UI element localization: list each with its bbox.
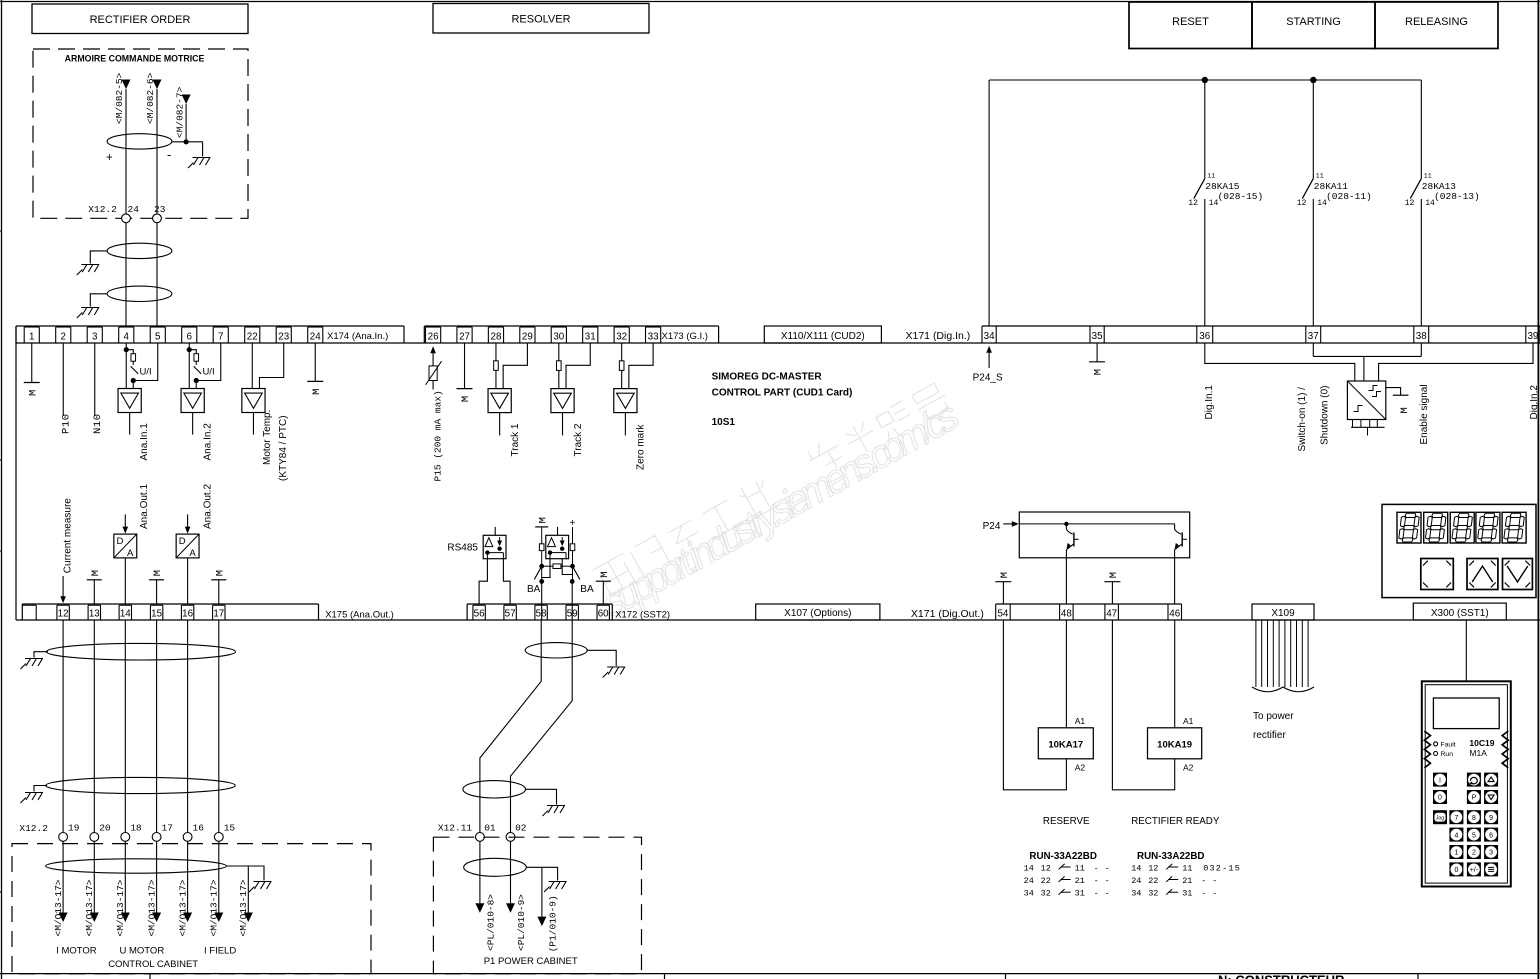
svg-text:Ana.In.1: Ana.In.1 [139, 423, 150, 461]
svg-text:30: 30 [553, 331, 564, 342]
connector X109 [1252, 604, 1314, 620]
shield ellipse E7 [463, 781, 557, 805]
svg-text:2: 2 [1472, 850, 1476, 857]
svg-text:Zero mark: Zero mark [636, 423, 647, 470]
cable dest PL/010-8 [475, 841, 496, 951]
shield ellipse E5 [34, 777, 235, 793]
svg-text:14: 14 [120, 609, 131, 620]
enclosure P1 POWER CABINET [433, 837, 641, 974]
svg-text:17: 17 [213, 609, 224, 620]
svg-text:M: M [311, 389, 323, 395]
svg-text:I: I [1439, 777, 1441, 784]
wire M terminal 13 [87, 570, 102, 604]
svg-text:12: 12 [58, 609, 69, 620]
svg-text:12: 12 [1148, 863, 1158, 873]
label SIMOREG DC-MASTER CONTROL PART [712, 371, 853, 428]
terminal strip common rail row1 [16, 342, 1540, 344]
svg-text:<PL/010-8>: <PL/010-8> [486, 894, 497, 951]
shield ellipse E9 [464, 858, 558, 880]
svg-text:RS485: RS485 [447, 543, 478, 554]
contact 28KA11 [1297, 80, 1372, 326]
label RUN-33A22BD contact table (10KA19) [1131, 851, 1241, 899]
wire M terminal 15 [149, 570, 164, 604]
transceiver RS485 U20 [479, 527, 510, 604]
svg-text:-: - [1212, 889, 1217, 899]
svg-text:21: 21 [1182, 876, 1192, 886]
svg-text:-: - [1094, 889, 1099, 899]
svg-text:24: 24 [128, 204, 140, 215]
svg-text:D: D [179, 536, 186, 547]
svg-text:Switch-on (1) /: Switch-on (1) / [1297, 387, 1308, 452]
svg-text:60: 60 [598, 609, 609, 620]
svg-text:(028-15): (028-15) [1218, 191, 1264, 202]
ground [249, 882, 272, 893]
svg-text:26: 26 [428, 331, 439, 342]
svg-text:10C19: 10C19 [1469, 738, 1494, 748]
svg-text:A1: A1 [1183, 716, 1194, 726]
svg-text:34: 34 [984, 331, 995, 342]
ground [77, 265, 100, 276]
header box STARTING [1252, 2, 1375, 49]
svg-text:14: 14 [1024, 863, 1034, 873]
cable dest PL/010-9 [506, 841, 527, 951]
shield ellipse E2 [90, 243, 172, 263]
svg-text:48: 48 [1061, 609, 1072, 620]
wire to X174-5 [156, 223, 158, 326]
svg-text:-: - [1105, 863, 1110, 873]
svg-text:Dig.In.1: Dig.In.1 [1204, 385, 1215, 420]
cable dest P1/010-9 [537, 867, 558, 952]
svg-text:P15 (200 mA max): P15 (200 mA max) [433, 390, 444, 481]
transistor output 48 [1066, 524, 1078, 604]
svg-text:31: 31 [585, 331, 596, 342]
svg-text:Ana.Out.2: Ana.Out.2 [203, 484, 214, 529]
svg-text:(KTY84 / PTC): (KTY84 / PTC) [278, 415, 289, 481]
svg-text:<M/Q13-17>: <M/Q13-17> [178, 879, 189, 936]
svg-text:-: - [1201, 889, 1206, 899]
ground [603, 667, 626, 678]
enclosure CONTROL CABINET [12, 844, 371, 974]
svg-text:02: 02 [515, 823, 527, 834]
cable dest M/Q13-17 wires [53, 841, 253, 936]
svg-text:Shutdown (0): Shutdown (0) [1320, 386, 1331, 445]
svg-text:36: 36 [1199, 331, 1210, 342]
svg-text:I FIELD: I FIELD [204, 945, 236, 956]
ground [544, 882, 567, 893]
connector X12.2 terminal 24 [88, 204, 139, 223]
svg-text:X12.2: X12.2 [19, 823, 48, 834]
DAC Ana.Out.1 [114, 484, 150, 604]
svg-text:33: 33 [648, 331, 659, 342]
svg-text:16: 16 [193, 823, 205, 834]
svg-text:RUN-33A22BD: RUN-33A22BD [1029, 851, 1097, 862]
contact 28KA15 [1188, 80, 1263, 326]
svg-text:Fault: Fault [1441, 742, 1456, 749]
svg-text:A1: A1 [1075, 716, 1086, 726]
svg-text:A2: A2 [1183, 762, 1194, 772]
svg-text:31: 31 [1075, 889, 1085, 899]
card left edge [15, 326, 17, 620]
svg-text:P24_S: P24_S [973, 372, 1003, 383]
wire Dig.In.1 [1204, 343, 1355, 420]
svg-text:46: 46 [1169, 609, 1180, 620]
svg-text:14: 14 [1317, 199, 1327, 208]
svg-text:<M/Q13-17>: <M/Q13-17> [238, 879, 249, 936]
svg-text:10S1: 10S1 [712, 417, 736, 428]
svg-text:12: 12 [1405, 199, 1415, 208]
ribbon cable to power rectifier [1252, 620, 1314, 741]
svg-text:22: 22 [247, 331, 258, 342]
svg-text:5: 5 [1472, 832, 1476, 839]
svg-text:U MOTOR: U MOTOR [120, 945, 165, 956]
svg-text:X173 (G.I.): X173 (G.I.) [662, 331, 708, 342]
wire to X174-4 [125, 223, 127, 326]
svg-text:U/I: U/I [139, 367, 151, 378]
wire rectifier order + [125, 89, 127, 214]
svg-text:4: 4 [1454, 832, 1458, 839]
svg-text:<M/Q13-17>: <M/Q13-17> [147, 879, 158, 936]
svg-text:10KA17: 10KA17 [1048, 740, 1083, 751]
title block [0, 973, 1540, 979]
svg-text:X110/X111 (CUD2): X110/X111 (CUD2) [781, 331, 865, 342]
svg-text:BA: BA [580, 584, 594, 595]
svg-text:1: 1 [1454, 850, 1458, 857]
svg-text:M: M [1108, 572, 1120, 578]
svg-text:20: 20 [99, 823, 111, 834]
driver box P24 digital outputs [983, 512, 1190, 558]
svg-text:M: M [214, 570, 226, 576]
terminal strip X172 (SST2) [467, 604, 670, 620]
svg-text:15: 15 [224, 823, 236, 834]
contact 28KA13 [1405, 80, 1480, 326]
header box RESET [1129, 2, 1252, 49]
svg-text:35: 35 [1092, 331, 1103, 342]
svg-text:X300 (SST1): X300 (SST1) [1431, 608, 1489, 619]
svg-text:23: 23 [154, 204, 166, 215]
connector X12.2 lower [19, 823, 235, 842]
wire M terminal 60 [596, 571, 611, 604]
svg-text:24: 24 [1131, 876, 1141, 886]
svg-text:38: 38 [1416, 331, 1427, 342]
shield ellipse E8 [525, 643, 616, 666]
svg-text:24: 24 [310, 331, 321, 342]
svg-text:STARTING: STARTING [1286, 16, 1341, 28]
svg-text:1: 1 [29, 331, 34, 342]
svg-text:Track 2: Track 2 [573, 423, 584, 456]
svg-text:M: M [152, 570, 164, 576]
amplifier Zero mark [614, 343, 653, 470]
svg-text:M: M [460, 396, 472, 402]
svg-text:39: 39 [1527, 331, 1538, 342]
enclosure ARMOIRE COMMANDE MOTRICE [33, 49, 248, 218]
header box RESOLVER [433, 4, 649, 34]
svg-text:34: 34 [1024, 889, 1034, 899]
svg-text:CONTROL CABINET: CONTROL CABINET [108, 959, 198, 970]
svg-text:M: M [999, 572, 1011, 578]
svg-text:M: M [1399, 407, 1411, 413]
svg-text:D: D [116, 536, 123, 547]
wire M terminal 24 [307, 343, 323, 395]
header box RELEASING [1375, 2, 1498, 49]
svg-text:9: 9 [1489, 815, 1493, 822]
svg-text:N10: N10 [92, 413, 104, 434]
terminal strip X171 (Dig.Out.) [911, 604, 1182, 620]
svg-text:X171 (Dig.In.): X171 (Dig.In.) [906, 330, 971, 342]
svg-text:+: + [106, 152, 113, 164]
svg-text:32: 32 [616, 331, 627, 342]
relay coil 10KA19 [1112, 620, 1201, 790]
shield ellipse E4 [34, 643, 236, 660]
svg-text:Run: Run [1441, 751, 1454, 758]
svg-text:-: - [1201, 876, 1206, 886]
connector X110/X111 (CUD2) [764, 326, 881, 343]
wire M terminal 35 [1089, 343, 1105, 375]
svg-text:rectifier: rectifier [1253, 730, 1286, 741]
svg-text:13: 13 [89, 609, 100, 620]
svg-text:32: 32 [1041, 889, 1051, 899]
shield ellipse E6 [46, 859, 264, 881]
terminal strip X173 (G.I.) [424, 326, 718, 343]
svg-text:<M/Q13-17>: <M/Q13-17> [84, 879, 95, 936]
svg-text:15: 15 [151, 609, 162, 620]
svg-text:X174 (Ana.In.): X174 (Ana.In.) [327, 331, 388, 342]
svg-text:RESOLVER: RESOLVER [511, 14, 570, 26]
amplifier Ana.In.2 [181, 343, 221, 461]
cable source M/082-5 [114, 72, 130, 124]
motor signal cable wires [63, 620, 219, 833]
svg-text:(028-11): (028-11) [1326, 191, 1372, 202]
connector X107 (Options) [756, 604, 880, 620]
svg-text:M1A: M1A [1469, 748, 1487, 758]
wire M terminal 54 [995, 572, 1011, 604]
svg-text:(028-13): (028-13) [1434, 191, 1480, 202]
svg-text:6: 6 [187, 331, 193, 342]
svg-text:RECTIFIER READY: RECTIFIER READY [1131, 816, 1220, 827]
connector X12.11 [438, 823, 527, 842]
svg-text:19: 19 [68, 823, 80, 834]
svg-text:34: 34 [1131, 889, 1141, 899]
display unit 7-segment [1382, 504, 1536, 597]
label RUN-33A22BD contact table (10KA17) [1024, 851, 1110, 899]
serial link wires to power cabinet [480, 620, 572, 833]
svg-text:M: M [90, 570, 102, 576]
svg-text:X172 (SST2): X172 (SST2) [615, 609, 670, 620]
wire M terminal 27 [457, 343, 473, 402]
svg-text:3: 3 [92, 331, 98, 342]
shield ellipse E3 [90, 286, 172, 306]
connector X12.2 terminal 23 [153, 204, 166, 223]
svg-text:-: - [1094, 863, 1099, 873]
wire rectifier order - [156, 89, 158, 214]
svg-text:(P1/010-9): (P1/010-9) [548, 895, 559, 952]
supply P15 (200 mA max) [426, 346, 444, 481]
svg-text:22: 22 [1148, 876, 1158, 886]
svg-text:I MOTOR: I MOTOR [56, 945, 97, 956]
svg-text:12: 12 [1041, 863, 1051, 873]
svg-text:7: 7 [218, 331, 223, 342]
button blank [1421, 559, 1454, 590]
shield ellipse E1 [106, 134, 172, 164]
terminal strip X175 (Ana.Out.) [22, 604, 394, 620]
amplifier Track 1 [488, 343, 527, 457]
svg-text:-: - [1094, 876, 1099, 886]
svg-text:18: 18 [130, 823, 142, 834]
svg-text:SIMOREG DC-MASTER: SIMOREG DC-MASTER [712, 371, 823, 382]
svg-text:16: 16 [182, 609, 193, 620]
wire M terminal 1 [24, 343, 40, 396]
svg-text:11: 11 [1424, 173, 1432, 180]
svg-text:14: 14 [1131, 863, 1141, 873]
svg-text:RESET: RESET [1172, 16, 1209, 28]
isolator/threshold converter U10 [1347, 381, 1385, 436]
svg-text:<M/082-6>: <M/082-6> [145, 72, 156, 124]
svg-text:BA: BA [527, 584, 541, 595]
svg-text:+/-: +/- [1470, 867, 1479, 874]
svg-text:P1 POWER CABINET: P1 POWER CABINET [484, 956, 578, 967]
svg-text:7: 7 [1454, 815, 1458, 822]
ground [21, 659, 44, 670]
svg-text:5: 5 [155, 331, 161, 342]
transceiver RS485 U21 with termination [527, 517, 594, 620]
svg-text:Ana.Out.1: Ana.Out.1 [139, 484, 150, 529]
svg-text:24: 24 [1024, 876, 1034, 886]
wire Switch-on/Shutdown [1297, 343, 1421, 452]
svg-text:29: 29 [522, 331, 533, 342]
DAC Ana.Out.2 [176, 484, 213, 604]
svg-text:X175 (Ana.Out.): X175 (Ana.Out.) [325, 609, 394, 620]
svg-text:11: 11 [1182, 863, 1192, 873]
svg-text:Track 1: Track 1 [510, 423, 521, 456]
cable source M/082-7 [174, 86, 190, 138]
svg-text:M: M [537, 517, 549, 523]
svg-text:-: - [1212, 876, 1217, 886]
svg-text:Jog: Jog [1436, 816, 1444, 822]
svg-text:11: 11 [1207, 173, 1215, 180]
svg-text:0: 0 [1454, 867, 1458, 874]
svg-text:P24: P24 [983, 521, 1001, 532]
wire M terminal 17 [211, 570, 226, 604]
ground [21, 793, 44, 804]
svg-text:M: M [599, 571, 611, 577]
svg-text:U/I: U/I [202, 367, 214, 378]
svg-text:X12.2: X12.2 [88, 204, 117, 215]
svg-text:-: - [1105, 876, 1110, 886]
svg-text:X109: X109 [1271, 608, 1295, 619]
svg-text:X12.11: X12.11 [438, 823, 473, 834]
svg-text:Ana.In.2: Ana.In.2 [203, 423, 214, 461]
svg-text:-: - [167, 147, 171, 162]
cable source M/082-6 [145, 72, 161, 124]
watermark siemens forum [593, 381, 952, 597]
svg-text:Enable signal: Enable signal [1419, 384, 1430, 444]
svg-text:2: 2 [61, 331, 66, 342]
svg-text:57: 57 [505, 609, 516, 620]
svg-text:47: 47 [1106, 609, 1117, 620]
svg-text:54: 54 [997, 609, 1008, 620]
svg-text:12: 12 [1297, 199, 1307, 208]
svg-text:28: 28 [491, 331, 502, 342]
wire N10 [92, 343, 104, 434]
relay coil 10KA17 [1003, 620, 1093, 790]
svg-text:Current measure: Current measure [62, 498, 73, 573]
terminal strip X174 (Ana.In.) [16, 326, 404, 343]
svg-text:RESERVE: RESERVE [1043, 816, 1090, 827]
svg-text:32: 32 [1148, 889, 1158, 899]
svg-text:11: 11 [1075, 863, 1085, 873]
svg-text:M: M [1093, 369, 1105, 375]
svg-text:<M/Q13-17>: <M/Q13-17> [209, 879, 220, 936]
svg-text:<M/082-7>: <M/082-7> [174, 86, 185, 138]
svg-text:11: 11 [1316, 173, 1324, 180]
svg-text:17: 17 [162, 823, 173, 834]
connector X300 (SST1) [1413, 603, 1506, 620]
terminal strip X171 (Dig.In.) [906, 326, 1540, 343]
amplifier Track 2 [551, 343, 590, 457]
svg-text:RELEASING: RELEASING [1405, 16, 1468, 28]
svg-text:<M/082-5>: <M/082-5> [114, 72, 125, 124]
svg-text:X107 (Options): X107 (Options) [784, 608, 851, 619]
svg-text:31: 31 [1182, 889, 1192, 899]
amplifier Motor Temp (KTY84/PTC) [242, 343, 289, 481]
signal Current measure [60, 498, 73, 603]
svg-text:P: P [1472, 795, 1477, 802]
svg-text:<M/Q13-17>: <M/Q13-17> [53, 879, 64, 936]
svg-text:37: 37 [1308, 331, 1319, 342]
ground [543, 806, 566, 817]
svg-text:N: CONSTRUCTEUR: N: CONSTRUCTEUR [1218, 973, 1345, 979]
button down [1503, 559, 1533, 590]
svg-text:RUN-33A22BD: RUN-33A22BD [1137, 851, 1205, 862]
svg-text:-: - [1105, 889, 1110, 899]
svg-text:14: 14 [1425, 199, 1435, 208]
svg-text:RECTIFIER ORDER: RECTIFIER ORDER [90, 14, 191, 26]
svg-text:27: 27 [459, 331, 470, 342]
svg-text:14: 14 [1209, 199, 1219, 208]
svg-text:6: 6 [1489, 832, 1493, 839]
svg-text:To power: To power [1253, 711, 1294, 722]
wire M terminal 47 [1104, 572, 1120, 604]
wire Enable signal M [1386, 384, 1430, 444]
node P24 rail [989, 77, 1421, 326]
svg-text:23: 23 [278, 331, 289, 342]
signal P24_S [973, 346, 1003, 384]
wire shield drain [172, 104, 203, 157]
svg-text:21: 21 [1075, 876, 1085, 886]
svg-text:Dig.In.2: Dig.In.2 [1529, 385, 1540, 420]
svg-text:A: A [189, 548, 196, 559]
svg-text:8: 8 [1472, 815, 1476, 822]
svg-text:CONTROL PART (CUD1 Card): CONTROL PART (CUD1 Card) [712, 388, 853, 399]
svg-text:P10: P10 [61, 413, 73, 434]
svg-text:12: 12 [1188, 199, 1198, 208]
svg-text:56: 56 [474, 609, 485, 620]
operator panel 10C19 [1422, 620, 1511, 887]
svg-text:ARMOIRE COMMANDE MOTRICE: ARMOIRE COMMANDE MOTRICE [65, 54, 205, 64]
transistor output 46 [1175, 524, 1187, 604]
amplifier Ana.In.1 [118, 343, 158, 461]
svg-text:Motor Temp.: Motor Temp. [262, 410, 273, 465]
svg-text:<PL/010-9>: <PL/010-9> [516, 894, 527, 951]
ground [77, 308, 100, 319]
svg-text:10KA19: 10KA19 [1157, 740, 1192, 751]
svg-text:M: M [27, 390, 39, 396]
header box RECTIFIER ORDER [32, 4, 248, 34]
ground [188, 158, 211, 169]
svg-text:0: 0 [1438, 795, 1442, 802]
wire Dig.In.2 [1379, 343, 1540, 420]
svg-text:A: A [127, 548, 134, 559]
svg-text:A2: A2 [1075, 762, 1086, 772]
